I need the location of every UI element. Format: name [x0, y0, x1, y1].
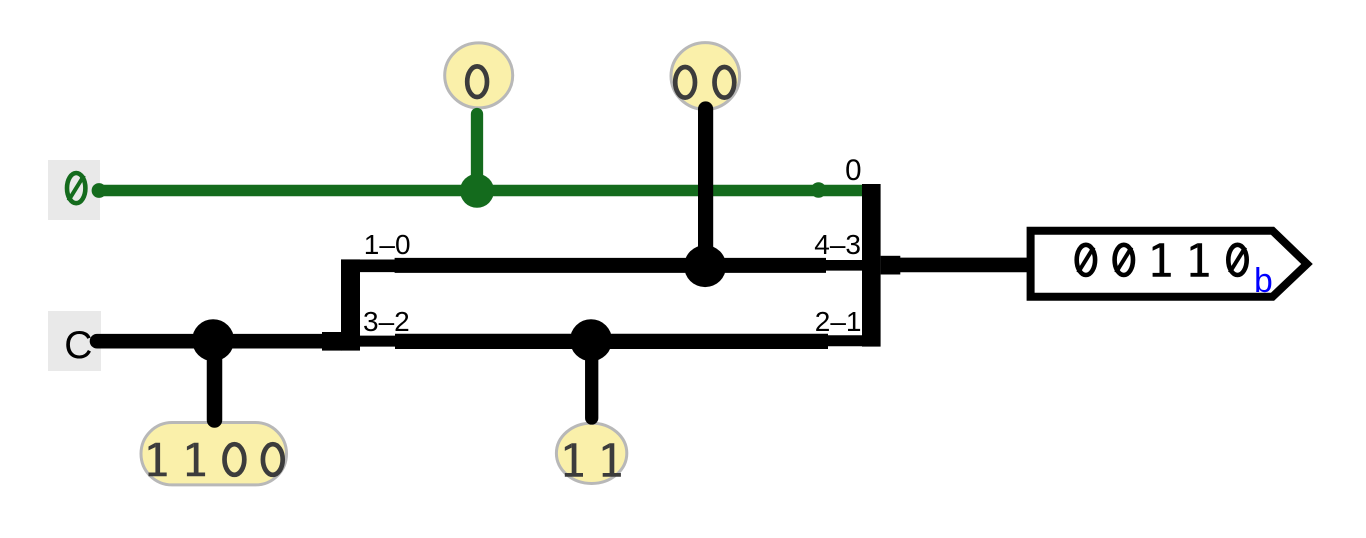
text output value digit 1: [1153, 243, 1171, 276]
text bubble B1 value 0: [467, 66, 487, 97]
svg-text:C: C: [64, 324, 92, 367]
svg-text:b: b: [1253, 265, 1273, 303]
svg-text:0: 0: [845, 154, 861, 187]
output pin symbol arrow: [1031, 231, 1307, 297]
junction bus C: [192, 319, 234, 361]
text input label 0 (green slashed zero): [67, 173, 85, 203]
text bubble B3 value 1100: [149, 443, 167, 477]
wire green stub to bubble B1: [471, 114, 483, 191]
svg-text:4–3: 4–3: [814, 229, 861, 260]
svg-text:1–0: 1–0: [364, 229, 411, 260]
label box input 0: [48, 160, 100, 220]
label box input C: [48, 311, 101, 371]
splitter S2 common stub: [881, 256, 901, 275]
wire green net0 main run: [97, 185, 862, 196]
text bubble B2 value 00: [675, 67, 695, 98]
splitter S2 pin stub 4-3: [824, 260, 864, 271]
probe bubble B3 value 1100: [141, 423, 287, 485]
junction bus top: [684, 245, 726, 287]
text output value digit 0: [1115, 245, 1133, 275]
wire bus top stub from bubble B2: [698, 109, 713, 266]
svg-text:2–1: 2–1: [815, 306, 862, 337]
splitter S1 pin stub 1-0: [359, 259, 395, 272]
text output value digit 0: [1228, 245, 1246, 275]
junction green: [460, 174, 494, 208]
splitter S1 pin stub 3-2: [359, 336, 395, 347]
text bubble B4 value 11: [565, 443, 583, 477]
wire bus top 1-0 to 4-3: [395, 258, 826, 273]
wire bus C horizontal: [97, 334, 341, 349]
wire green mid dot: [811, 182, 827, 198]
splitter S2 pin stub 2-1: [826, 335, 864, 346]
splitter S2 bar: [862, 184, 881, 347]
probe bubble B4 value 11: [556, 423, 626, 483]
splitter S1 bar: [341, 259, 360, 350]
wire bus bottom stub to bubble B4: [585, 341, 598, 418]
wire bus bottom 3-2 to 2-1: [395, 334, 828, 349]
junction bus bottom: [570, 319, 612, 361]
probe bubble B2 value 00: [671, 43, 740, 110]
splitter S1 common stub: [322, 332, 342, 351]
probe bubble B1 value 0: [445, 43, 513, 108]
text output value 00110 digit 0: [1077, 245, 1095, 275]
wire green endpoint dot left: [92, 183, 107, 198]
svg-text:3–2: 3–2: [363, 306, 410, 337]
wire bus output: [899, 258, 1030, 273]
text output value digit 1: [1191, 243, 1209, 276]
wire bus C stub to bubble B3: [207, 341, 223, 420]
